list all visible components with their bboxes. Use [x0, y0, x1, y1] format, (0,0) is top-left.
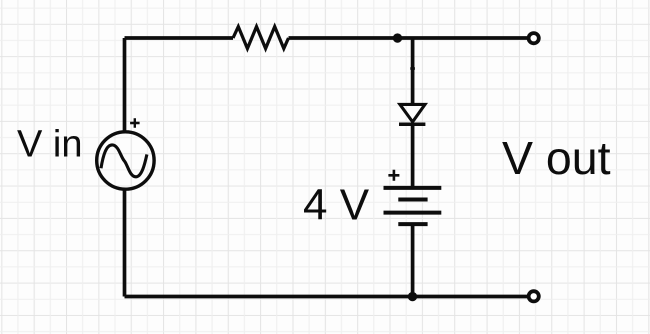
- battery plus sign: [388, 170, 399, 181]
- junction dot top node: [393, 33, 402, 42]
- svg-text:4 V: 4 V: [303, 181, 370, 230]
- wire bottom rail: [125, 295, 528, 299]
- label "V in": [17, 123, 82, 165]
- label "V out": [502, 132, 611, 184]
- wire top-left vertical (Vin to top rail): [123, 38, 127, 132]
- resistor: [233, 27, 289, 49]
- wire middle branch upper (top rail to diode): [411, 38, 415, 104]
- wire diode to battery: [411, 124, 415, 186]
- svg-text:V out: V out: [502, 132, 611, 184]
- wire top rail left (corner to resistor): [125, 36, 234, 40]
- wire top rail right (resistor to Vout+ terminal): [289, 36, 528, 40]
- diode: [399, 104, 425, 124]
- terminal Vout+: [529, 33, 539, 43]
- wire Vin to bottom rail: [123, 189, 127, 297]
- ac source Vin: [97, 132, 154, 189]
- svg-text:V in: V in: [17, 123, 82, 165]
- terminal Vout-: [529, 291, 539, 301]
- junction dot bottom node: [408, 292, 417, 301]
- label "4 V": [303, 181, 370, 230]
- wire battery to bottom rail: [411, 224, 415, 296]
- battery 4V: [384, 188, 442, 224]
- ac source plus sign: [130, 118, 140, 128]
